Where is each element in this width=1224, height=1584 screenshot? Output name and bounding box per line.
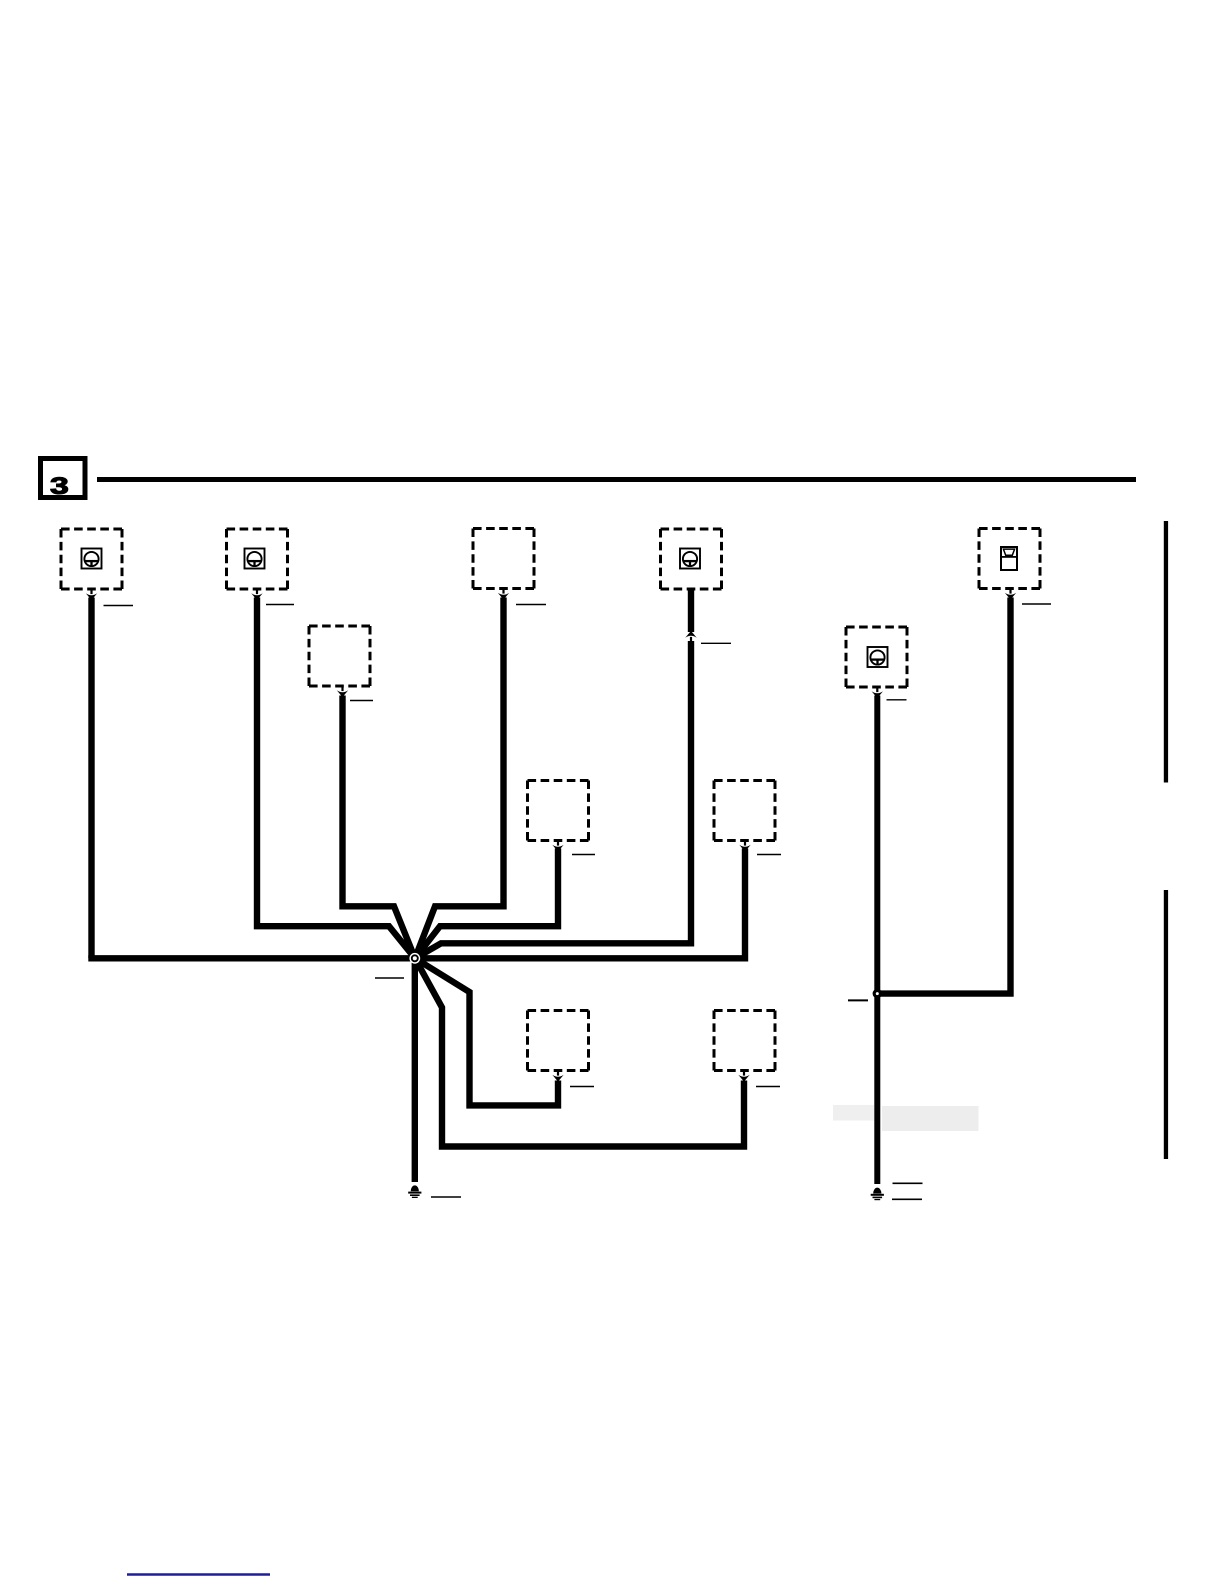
svg-text:3: 3	[50, 472, 69, 499]
